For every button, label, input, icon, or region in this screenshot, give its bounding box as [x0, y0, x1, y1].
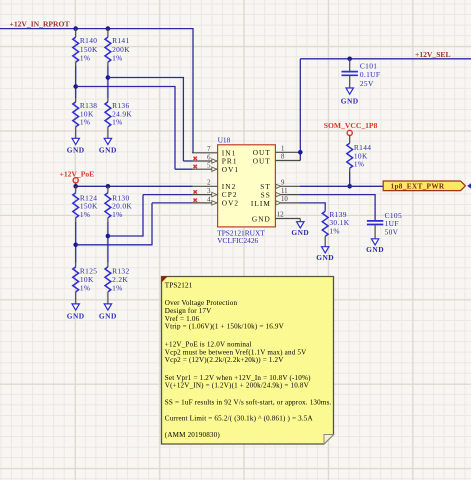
- svg-text:ILIM: ILIM: [251, 199, 271, 208]
- svg-text:1%: 1%: [80, 283, 91, 292]
- svg-text:U18: U18: [218, 136, 231, 145]
- pin 1 OUT: [253, 146, 301, 158]
- svg-text:SOM_VCC_1P8: SOM_VCC_1P8: [324, 121, 378, 130]
- wire OUT vertical: [299, 59, 301, 161]
- wire +12V_IN_RPROT horizontal: [0, 28, 193, 30]
- resistor R141 (200K): [105, 36, 130, 62]
- wire OV2 tap to pin: [152, 202, 193, 204]
- wire OV1 tap horizontal: [76, 86, 175, 88]
- junction C101 tap: [347, 57, 352, 62]
- svg-text:3: 3: [207, 188, 211, 195]
- svg-text:VCLFIC2426: VCLFIC2426: [217, 236, 258, 245]
- off-sheet arrow right of port: [467, 183, 471, 188]
- svg-text:1%: 1%: [354, 160, 365, 169]
- power port SOM_VCC_1P8 label: [324, 121, 378, 130]
- note TPS2121 design calculations: [162, 277, 334, 445]
- resistor R132 (2.2K): [105, 267, 130, 293]
- svg-text:11: 11: [281, 188, 288, 195]
- wire OV1 tap to pin: [175, 168, 193, 170]
- U18 part number TPS2121RUXT: [217, 228, 265, 237]
- junction +12V_PoE / R130: [106, 184, 111, 189]
- pin 2 IN2: [192, 180, 236, 191]
- ground below C105: [366, 225, 384, 254]
- ground below R139: [316, 236, 334, 262]
- ground at pin 12: [291, 219, 309, 237]
- svg-text:1%: 1%: [80, 210, 91, 219]
- svg-text:5: 5: [207, 163, 211, 170]
- capacitor C101: [342, 62, 381, 88]
- wire R140 top lead: [75, 29, 77, 37]
- wire CP2 tap vertical: [142, 195, 144, 237]
- power port SOM_VCC_1P8 circle: [347, 130, 352, 135]
- svg-text:1%: 1%: [112, 53, 123, 62]
- wire ILIM vertical to R139: [324, 202, 326, 211]
- ground below C101: [341, 75, 359, 105]
- op-amp U18 body: [218, 145, 276, 227]
- wire R124-R125 segment: [75, 218, 77, 267]
- svg-text:Over Voltage Protection: Over Voltage Protection: [165, 299, 238, 307]
- wire SS vertical to C105: [374, 194, 376, 221]
- svg-text:GND: GND: [67, 311, 85, 320]
- svg-text:Set Vpr1 = 1.2V when +12V_In =: Set Vpr1 = 1.2V when +12V_In = 10.8V (-1…: [165, 374, 311, 382]
- wire R144 bottom segment: [349, 168, 351, 186]
- pin 5 OV1: [192, 163, 239, 174]
- svg-text:TPS2121: TPS2121: [165, 281, 193, 289]
- svg-text:OUT: OUT: [253, 156, 271, 165]
- svg-text:1%: 1%: [80, 53, 91, 62]
- resistor R125 (10K): [73, 267, 98, 293]
- svg-text:1%: 1%: [112, 283, 123, 292]
- svg-text:OV1: OV1: [222, 165, 239, 174]
- wire +12V_SEL horizontal: [300, 58, 471, 60]
- svg-text:12: 12: [277, 212, 284, 219]
- svg-text:Design for 17V: Design for 17V: [165, 307, 212, 315]
- svg-text:Vcp2 = (12V)(2.2k/(2.2k+20k)): Vcp2 = (12V)(2.2k/(2.2k+20k)) = 1.2V: [165, 356, 284, 364]
- pin 12 GND: [252, 212, 300, 224]
- pin 7 IN1: [192, 146, 236, 157]
- resistor R140 (150K): [73, 36, 98, 62]
- junction top wire / R140: [73, 26, 78, 31]
- junction OV1 tap: [73, 84, 78, 89]
- power port +12V_PoE circle: [73, 178, 78, 183]
- svg-text:Vref = 1.06: Vref = 1.06: [165, 315, 200, 323]
- svg-text:+12V_PoE is 12.0V nominal: +12V_PoE is 12.0V nominal: [165, 340, 252, 348]
- wire R141-R136 segment: [107, 62, 109, 102]
- resistor R130 (20.0K): [105, 193, 132, 219]
- svg-text:GND: GND: [316, 253, 334, 262]
- svg-text:+12V_IN_RPROT: +12V_IN_RPROT: [10, 20, 70, 29]
- svg-text:10: 10: [281, 196, 288, 203]
- svg-text:4: 4: [207, 196, 211, 203]
- wire PR1 tap horizontal: [108, 77, 183, 79]
- resistor R144 (10K): [347, 143, 372, 169]
- svg-text:50V: 50V: [385, 228, 399, 237]
- pin 10 ILIM: [251, 196, 300, 208]
- wire R141 top lead: [107, 29, 109, 37]
- wire +12V_PoE horizontal to IN2: [76, 185, 193, 187]
- svg-text:GND: GND: [291, 228, 309, 237]
- svg-text:GND: GND: [252, 214, 271, 223]
- junction OUT pins: [298, 150, 303, 155]
- resistor R138 (10K): [73, 101, 98, 127]
- svg-text:1%: 1%: [112, 118, 123, 127]
- resistor R136 (24.9K): [105, 101, 132, 127]
- svg-text:GND: GND: [67, 146, 85, 155]
- power port +12V_PoE stub: [75, 183, 77, 186]
- wire OV1 tap vertical: [174, 86, 176, 169]
- junction ST / R144 / port: [347, 184, 352, 189]
- ground below R125: [67, 292, 85, 321]
- wire SS horizontal: [300, 194, 375, 196]
- power port +12V_PoE label: [60, 170, 95, 179]
- svg-text:1%: 1%: [80, 118, 91, 127]
- svg-text:GND: GND: [99, 146, 117, 155]
- svg-text:1: 1: [281, 146, 284, 153]
- junction CP2 tap: [106, 234, 111, 239]
- wire CP2 tap to pin: [143, 194, 193, 196]
- pin 4 OV2: [192, 196, 239, 207]
- svg-text:Vcp2 must be between Vref(1.1V: Vcp2 must be between Vref(1.1V max) and …: [165, 348, 307, 356]
- wire R130 top lead: [107, 186, 109, 193]
- wire OV2 tap vertical: [151, 203, 153, 246]
- wire R124 top lead: [75, 186, 77, 193]
- U18 designator: [218, 136, 231, 145]
- svg-text:V(+12V_IN) = (1.2V)(1 + 200k/2: V(+12V_IN) = (1.2V)(1 + 200k/24.9k) = 10…: [165, 382, 310, 390]
- resistor R124 (150K): [73, 193, 98, 219]
- svg-text:SS = 1uF results in 92 V/s sof: SS = 1uF results in 92 V/s soft-start, o…: [165, 398, 332, 406]
- svg-text:Current Limit = 65.2/( (30.1k): Current Limit = 65.2/( (30.1k) ^ (0.861)…: [165, 415, 314, 423]
- wire CP2 tap horizontal: [108, 235, 143, 237]
- pin 6 PR1: [192, 154, 238, 165]
- pin 8 OUT: [253, 154, 301, 166]
- net label +12V_IN_RPROT: [10, 20, 70, 29]
- wire R140-R138 segment: [75, 62, 77, 102]
- svg-text:+12V_SEL: +12V_SEL: [415, 50, 451, 59]
- svg-text:OV2: OV2: [222, 199, 239, 208]
- svg-text:1%: 1%: [329, 227, 340, 236]
- wire +12V_IN_RPROT vertical to IN1: [192, 28, 194, 153]
- ground below R136: [99, 127, 117, 155]
- ground below R138: [67, 127, 85, 155]
- resistor R139 (30.1K): [322, 210, 349, 237]
- wire PR1 tap vertical: [182, 77, 184, 161]
- wire ST to port: [300, 185, 383, 187]
- svg-text:1%: 1%: [112, 210, 123, 219]
- capacitor C105: [367, 211, 402, 237]
- power port SOM_VCC_1P8 stub: [349, 136, 351, 144]
- svg-text:8: 8: [281, 154, 285, 161]
- net label +12V_SEL: [415, 50, 451, 59]
- U18 part number VCLFIC2426: [217, 236, 258, 245]
- junction +12V_PoE / R124: [73, 184, 78, 189]
- wire OV2 tap horizontal: [76, 244, 152, 246]
- junction top wire / R141: [106, 26, 111, 31]
- port 1p8_EXT_PWR: [383, 181, 465, 191]
- svg-text:6: 6: [207, 154, 211, 161]
- svg-text:GND: GND: [366, 245, 384, 254]
- wire PR1 tap to pin: [183, 160, 192, 162]
- pin 9 ST: [260, 180, 300, 192]
- svg-text:1p8_EXT_PWR: 1p8_EXT_PWR: [391, 182, 445, 191]
- svg-text:25V: 25V: [360, 79, 374, 88]
- junction PR1 tap: [106, 75, 111, 80]
- svg-text:GND: GND: [341, 96, 359, 105]
- pin 11 SS: [261, 188, 301, 200]
- svg-text:(AMM 20190830): (AMM 20190830): [165, 431, 221, 439]
- pin 3 CP2: [192, 188, 238, 199]
- junction OV2 tap: [73, 243, 78, 248]
- svg-text:2: 2: [207, 180, 211, 187]
- svg-text:9: 9: [281, 180, 285, 187]
- ground below R132: [99, 292, 117, 321]
- wire R130-R132 segment: [107, 218, 109, 267]
- svg-text:7: 7: [207, 146, 211, 153]
- svg-text:Vtrip = (1.06V)(1 + 150k/10k): Vtrip = (1.06V)(1 + 150k/10k) = 16.9V: [165, 323, 285, 331]
- wire C101 top lead: [349, 59, 351, 71]
- svg-text:GND: GND: [99, 311, 117, 320]
- wire ILIM horizontal: [300, 202, 325, 204]
